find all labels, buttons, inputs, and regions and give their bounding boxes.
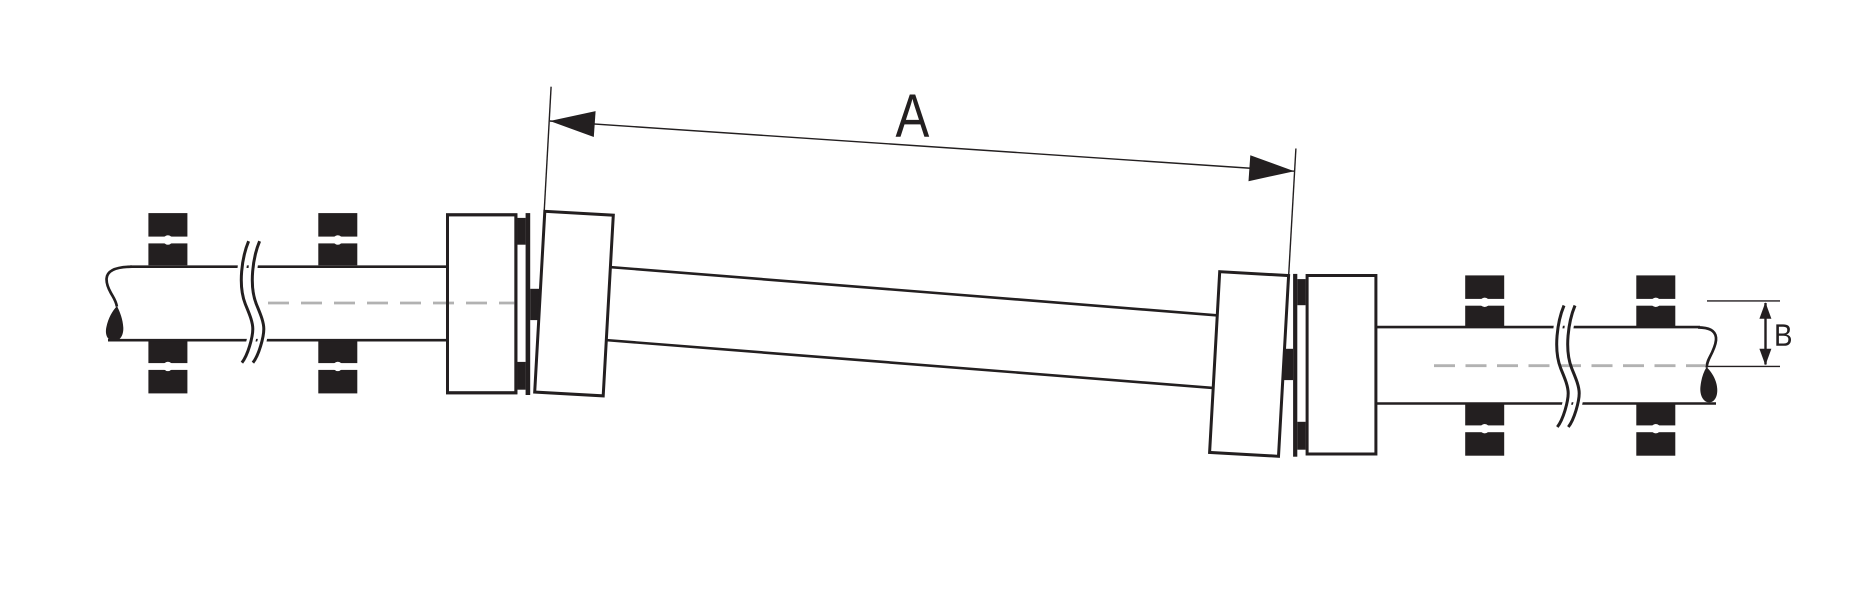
left pipe top line bbox=[130, 265, 446, 268]
dimension B lower reference line bbox=[1708, 365, 1780, 367]
pipe clamp 2 lower inner block bbox=[318, 341, 357, 363]
pipe clamp 4 upper inner block bbox=[1636, 306, 1675, 328]
right pipe centerline (dashed) bbox=[1434, 364, 1705, 367]
right pipe broken end outline bbox=[1698, 327, 1716, 367]
right pipe broken end teardrop bbox=[1700, 367, 1717, 402]
pipe clamp 2 upper outer block bbox=[318, 213, 357, 237]
left pipe bottom line bbox=[108, 339, 446, 342]
right pipe top line bbox=[1377, 326, 1700, 329]
left joint plate bbox=[526, 213, 531, 395]
left pipe break white casing bbox=[241, 241, 263, 363]
pipe clamp 3 upper inner block bbox=[1465, 306, 1504, 328]
intermediate shaft top line bbox=[608, 267, 1218, 316]
pipe clamp 3 upper pivot dot bbox=[1480, 298, 1489, 307]
dimension B up arrowhead bbox=[1759, 302, 1771, 319]
left pipe break curve 2 bbox=[252, 241, 263, 363]
pipe clamp 2 lower pivot dot bbox=[333, 362, 342, 371]
pipe clamp 1 lower outer block bbox=[148, 370, 187, 394]
left companion flange border bbox=[448, 215, 516, 393]
left joint bottom bolt block bbox=[517, 362, 525, 390]
pipe clamp 4 upper pivot dot bbox=[1651, 298, 1660, 307]
pipe clamp 4 lower outer block bbox=[1636, 432, 1675, 456]
pipe clamp 4 lower pivot dot bbox=[1651, 424, 1660, 433]
pipe clamp 1 upper outer block bbox=[148, 213, 187, 237]
pipe clamp 3 upper outer block bbox=[1465, 275, 1504, 299]
pipe clamp 3 lower pivot dot bbox=[1480, 424, 1489, 433]
left joint top bolt block bbox=[517, 218, 525, 245]
left companion flange (upright) bbox=[448, 215, 516, 393]
pipe clamp 1 lower pivot dot bbox=[163, 362, 172, 371]
left pipe centerline (dashed) bbox=[268, 302, 516, 305]
left pipe broken end outline bbox=[107, 267, 132, 307]
right joint top bolt block bbox=[1297, 279, 1305, 305]
right pipe bottom line bbox=[1377, 402, 1716, 405]
left pipe break curve 1 bbox=[241, 241, 252, 363]
dimension A left arrowhead bbox=[550, 111, 596, 137]
right pipe break curve 2 bbox=[1568, 306, 1579, 428]
pipe clamp 4 lower inner block bbox=[1636, 404, 1675, 426]
right tilted flange bbox=[1210, 272, 1289, 457]
dimension B label bbox=[1776, 324, 1791, 345]
left joint middle block bbox=[530, 289, 540, 320]
dimension B upper reference line bbox=[1707, 300, 1780, 302]
right companion flange (upright) bbox=[1307, 276, 1376, 455]
left tilted flange bbox=[535, 211, 614, 396]
pipe clamp 2 upper inner block bbox=[318, 243, 357, 265]
right pipe break white casing bbox=[1557, 306, 1579, 428]
right joint bottom bolt block bbox=[1297, 422, 1305, 450]
intermediate shaft bottom line bbox=[605, 340, 1216, 388]
left pipe broken end teardrop bbox=[106, 306, 123, 341]
dimension A right arrowhead bbox=[1249, 155, 1295, 181]
pipe clamp 3 lower inner block bbox=[1465, 404, 1504, 426]
pipe clamp 1 upper pivot dot bbox=[163, 235, 172, 244]
dimension B down arrowhead bbox=[1759, 349, 1771, 366]
right joint middle block bbox=[1283, 349, 1293, 380]
pipe clamp 2 lower outer block bbox=[318, 370, 357, 394]
dimension A left extension line bbox=[544, 87, 551, 212]
dimension B line bbox=[1764, 303, 1766, 365]
pipe clamp 2 upper pivot dot bbox=[333, 235, 342, 244]
dimension A label bbox=[896, 95, 930, 137]
pipe clamp 1 upper inner block bbox=[148, 243, 187, 265]
dimension A right extension line bbox=[1289, 149, 1296, 277]
dimension A line bbox=[550, 121, 1295, 171]
right pipe break curve 1 bbox=[1557, 306, 1568, 428]
pipe clamp 3 lower outer block bbox=[1465, 432, 1504, 456]
pipe clamp 1 lower inner block bbox=[148, 341, 187, 363]
right joint plate bbox=[1293, 274, 1297, 457]
pipe clamp 4 upper outer block bbox=[1636, 275, 1675, 299]
